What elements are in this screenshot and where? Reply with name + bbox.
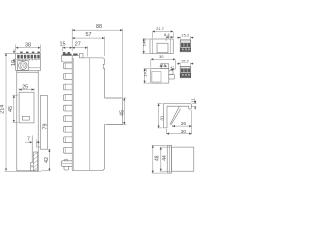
dim 45 F	[160, 147, 171, 171]
dim 14.3 A	[142, 38, 150, 54]
view B right lug upper	[169, 71, 173, 75]
body inner line	[89, 58, 91, 170]
dim 48	[152, 145, 167, 173]
top tab	[79, 53, 83, 58]
svg-text:79: 79	[43, 124, 49, 130]
front view body outline	[17, 71, 38, 171]
dim 42	[41, 149, 51, 171]
view B main outline	[151, 69, 169, 84]
dim 31	[158, 104, 166, 128]
view A inner box	[157, 43, 168, 53]
svg-text:14.3: 14.3	[142, 68, 147, 77]
view B inner box	[152, 72, 161, 83]
dim 11	[191, 98, 197, 110]
svg-text:38: 38	[25, 42, 31, 48]
svg-text:31: 31	[159, 115, 165, 121]
screw box	[18, 61, 29, 71]
top terminal clamp	[62, 56, 73, 63]
module window	[19, 92, 34, 123]
step line to foot	[31, 136, 33, 163]
terminal top nubs	[20, 52, 40, 54]
svg-text:7: 7	[27, 136, 30, 142]
view F narrow plate	[167, 145, 171, 173]
dim 88	[72, 24, 122, 97]
svg-text:8.4: 8.4	[164, 32, 170, 37]
dim 14.3 B	[142, 68, 150, 83]
bracket gusset	[170, 107, 181, 125]
head bottom second line	[17, 71, 38, 73]
view A outline	[150, 39, 173, 54]
view A left wall	[151, 39, 153, 54]
svg-text:48: 48	[154, 155, 160, 161]
bottom foot inner line	[61, 163, 72, 165]
svg-text:11: 11	[191, 98, 197, 103]
module label	[22, 116, 29, 120]
top terminal hatch left	[63, 54, 72, 56]
fins	[63, 63, 72, 153]
svg-text:42: 42	[44, 157, 50, 163]
foot tab	[31, 162, 34, 171]
view A right wall	[170, 39, 172, 54]
side protrusion 79	[40, 95, 47, 149]
front view head outline	[16, 53, 41, 70]
svg-text:57: 57	[86, 32, 92, 38]
dim 30 E	[167, 129, 192, 135]
view F inner line	[168, 145, 170, 173]
dim 45 right	[106, 98, 127, 125]
dim 4.1	[170, 65, 175, 69]
dim 15.2 D	[177, 59, 194, 66]
svg-text:21.7: 21.7	[156, 26, 165, 31]
dim 30 B	[151, 54, 176, 69]
bracket plate	[163, 104, 167, 128]
svg-text:45: 45	[8, 106, 14, 112]
spine inner line	[73, 58, 75, 170]
screw inner circle	[20, 63, 25, 68]
dim 45 left	[8, 95, 18, 122]
svg-text:25: 25	[22, 85, 28, 91]
svg-text:15: 15	[60, 42, 66, 48]
42 top extension	[40, 148, 50, 150]
dim 38	[16, 42, 41, 52]
svg-text:27: 27	[75, 42, 81, 48]
dim 27	[72, 42, 87, 57]
svg-text:13.6: 13.6	[160, 62, 166, 66]
tick row	[16, 59, 41, 60]
screw cross slot	[20, 63, 26, 69]
bottom foot bump	[65, 159, 67, 161]
svg-text:15.2: 15.2	[181, 33, 190, 38]
view B top box	[161, 64, 169, 69]
dim 15.2 C	[177, 33, 194, 40]
svg-text:10: 10	[11, 60, 17, 66]
svg-text:30: 30	[159, 54, 164, 59]
view B right lug lower	[169, 75, 175, 79]
foot hatched bar	[33, 152, 37, 171]
dim 21.7	[152, 26, 173, 38]
bottom foot plate	[61, 161, 72, 167]
svg-text:26: 26	[181, 121, 187, 127]
dim 7	[25, 136, 40, 142]
dim 13.6	[160, 62, 168, 66]
dim 8.4	[164, 32, 173, 41]
view C block	[180, 40, 191, 52]
svg-text:88: 88	[96, 24, 102, 30]
dim 15	[60, 42, 73, 52]
upper ledge line	[72, 55, 79, 57]
svg-text:15.2: 15.2	[181, 59, 190, 64]
svg-text:45: 45	[119, 110, 125, 116]
dim 214	[0, 53, 41, 171]
screw circle	[19, 61, 27, 69]
bottom foot tab	[64, 166, 69, 170]
top terminal hatch right	[73, 54, 77, 56]
terminal hatch row	[17, 55, 40, 59]
svg-text:214: 214	[0, 105, 6, 114]
svg-text:44: 44	[162, 155, 168, 161]
right slot line	[28, 67, 40, 69]
side body outline	[72, 58, 122, 171]
dim 26	[173, 110, 192, 134]
view D block	[180, 67, 191, 78]
bracket flange	[163, 104, 191, 110]
svg-text:30: 30	[181, 129, 187, 135]
top terminal nubs	[63, 52, 65, 54]
fin inner lines	[64, 63, 66, 153]
svg-text:14.3: 14.3	[142, 38, 147, 47]
dim 10	[11, 49, 17, 66]
view F body	[172, 147, 194, 171]
step line right	[37, 140, 41, 148]
dim 57	[72, 32, 104, 56]
dim 25	[19, 85, 34, 91]
svg-text:4.1: 4.1	[171, 65, 176, 69]
